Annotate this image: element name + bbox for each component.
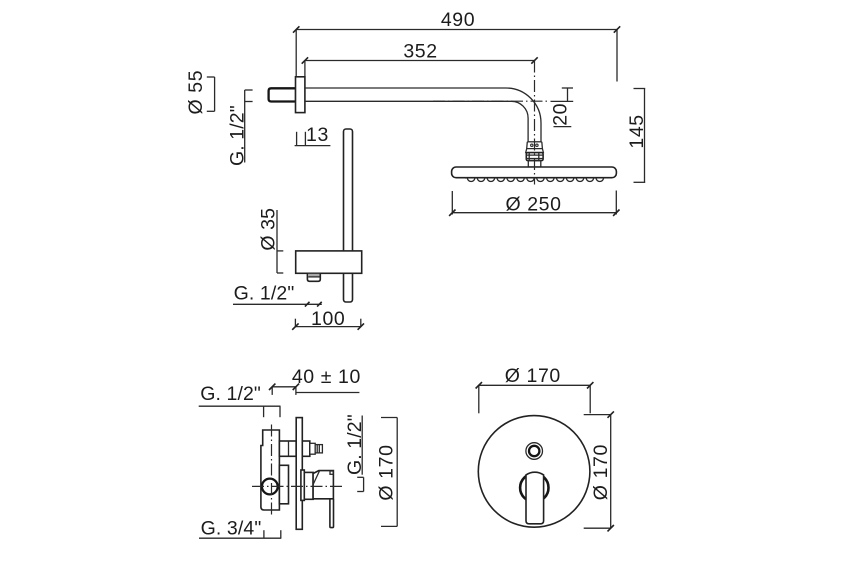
svg-text:G. 3/4": G. 3/4" [201, 517, 262, 539]
svg-text:100: 100 [311, 308, 345, 330]
label G 1/2 holder [233, 282, 322, 306]
svg-text:Ø 35: Ø 35 [258, 208, 280, 251]
dimension 40 +/- 10 [269, 366, 361, 395]
nozzle scallops [465, 178, 605, 182]
rail holder box [296, 251, 362, 273]
lever hub [313, 471, 333, 499]
svg-text:Ø 170: Ø 170 [376, 444, 398, 500]
threaded nipple [310, 443, 323, 454]
cartridge steps [301, 470, 304, 500]
lever bar front [526, 472, 544, 524]
svg-text:40 ± 10: 40 ± 10 [292, 366, 361, 388]
svg-text:Ø 250: Ø 250 [505, 193, 561, 215]
label G 3/4 [199, 517, 281, 539]
escutcheon plate edge-on [296, 418, 302, 530]
svg-text:G. 1/2": G. 1/2" [200, 383, 261, 405]
label G 1/2 arm [227, 90, 253, 166]
svg-text:20: 20 [549, 103, 571, 126]
body inlet circle [262, 479, 278, 495]
svg-text:352: 352 [403, 41, 437, 63]
body vertical centerline [271, 425, 273, 516]
lever handle bar [330, 499, 334, 528]
shower head [452, 167, 617, 178]
svg-text:490: 490 [441, 9, 475, 31]
svg-text:Ø 170: Ø 170 [590, 444, 612, 500]
svg-text:G. 1/2": G. 1/2" [234, 282, 295, 304]
escutcheon front circle [478, 416, 590, 528]
hand shower rail [344, 129, 353, 302]
dimension 352 [302, 41, 538, 77]
dimension diameter 170 front top [476, 365, 594, 413]
wall flange [296, 77, 305, 113]
wall stub G 1/2 [269, 88, 296, 101]
dimension diameter 250 [449, 191, 619, 216]
svg-text:13: 13 [306, 124, 329, 146]
cartridge block [279, 465, 288, 504]
dimension diameter 170 front right [584, 411, 614, 531]
outlet nub [307, 273, 320, 281]
dimension 100 [292, 308, 364, 330]
dimension 20 [549, 88, 573, 127]
dimension 145 [626, 89, 648, 183]
svg-text:G. 1/2": G. 1/2" [227, 105, 249, 166]
mixer valve body [261, 430, 280, 510]
label G 1/2 mixer rotated [344, 414, 366, 491]
label diameter 55 [185, 70, 215, 115]
centerline horizontal (bend axis) [433, 100, 549, 102]
swivel nut assembly [526, 142, 544, 167]
horizontal centerline mixer [252, 485, 342, 487]
upper outlet block [279, 441, 296, 456]
centerline vertical (arm axis) [534, 61, 536, 185]
dimension 13 [295, 124, 331, 146]
svg-text:Ø 170: Ø 170 [505, 365, 561, 387]
svg-text:145: 145 [626, 114, 648, 148]
diverter button [526, 443, 543, 460]
dimension 490 [293, 9, 620, 82]
shower arm pipe [305, 88, 541, 142]
lever collar ring [520, 474, 548, 502]
svg-text:G. 1/2": G. 1/2" [344, 414, 366, 475]
svg-text:Ø 55: Ø 55 [185, 70, 207, 115]
label G 1/2 mixer top [199, 383, 281, 417]
label diameter 35 [258, 208, 284, 273]
dimension diameter 170 side [376, 418, 398, 527]
outlet stub right of plate [302, 441, 310, 456]
